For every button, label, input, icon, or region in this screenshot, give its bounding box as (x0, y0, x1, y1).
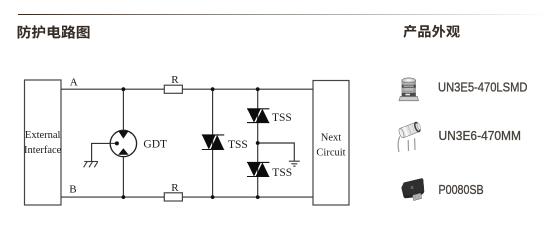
svg-text:GDT: GDT (143, 139, 167, 151)
svg-text:Interface: Interface (24, 145, 62, 156)
svg-text:External: External (25, 130, 61, 141)
svg-text:R: R (171, 182, 179, 194)
svg-text:TSS: TSS (272, 112, 292, 124)
svg-text:UN3E5-470LSMD: UN3E5-470LSMD (438, 80, 528, 95)
svg-text:UN3E6-470MM: UN3E6-470MM (439, 128, 522, 143)
svg-text:P0080SB: P0080SB (439, 182, 484, 197)
svg-text:TSS: TSS (272, 167, 292, 179)
svg-text:A: A (70, 77, 78, 89)
svg-text:B: B (69, 184, 76, 196)
svg-text:TSS: TSS (228, 139, 248, 151)
svg-text:Next: Next (321, 132, 341, 143)
svg-text:Circuit: Circuit (316, 148, 345, 159)
svg-text:R: R (171, 74, 179, 86)
